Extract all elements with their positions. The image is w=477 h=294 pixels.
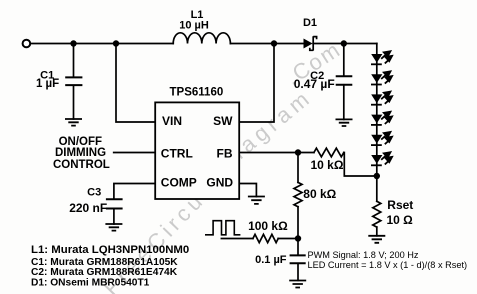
wire SW branch bbox=[239, 44, 274, 123]
resistor R2 80k zigzag bbox=[294, 182, 302, 206]
resistor R1 10k zigzag bbox=[314, 148, 344, 157]
svg-text:SW: SW bbox=[213, 114, 233, 128]
wire CTRL bbox=[114, 152, 156, 154]
LED D6 bbox=[371, 132, 393, 146]
wire Rset to ground bbox=[376, 227, 378, 236]
wire bottom node to C4 bbox=[297, 239, 299, 256]
ground C1 bbox=[65, 119, 82, 126]
svg-text:0.47 µF: 0.47 µF bbox=[294, 77, 335, 91]
LED D5 bbox=[371, 111, 393, 125]
svg-text:DIMMING: DIMMING bbox=[55, 147, 106, 159]
wire FB to resistor divider bbox=[239, 152, 314, 154]
inductor L1 bbox=[173, 33, 230, 44]
wire 80k to bottom node bbox=[297, 207, 299, 239]
node junction C2 bbox=[341, 40, 347, 46]
wire C1 branch bbox=[73, 44, 75, 77]
svg-text:10 Ω: 10 Ω bbox=[386, 213, 413, 227]
ground Rset bbox=[368, 236, 385, 243]
svg-text:1 µF: 1 µF bbox=[36, 78, 59, 90]
ground GND pin bbox=[248, 197, 265, 204]
svg-text:220 nF: 220 nF bbox=[69, 201, 107, 215]
ground C3 bbox=[105, 224, 122, 231]
LED D3 bbox=[371, 71, 393, 85]
svg-text:0.1 µF: 0.1 µF bbox=[255, 254, 287, 266]
svg-text:PWM Signal: 1.8 V; 200 Hz: PWM Signal: 1.8 V; 200 Hz bbox=[308, 250, 419, 260]
node junction PWM/RC bbox=[295, 235, 301, 241]
node junction SW/D1 bbox=[271, 40, 277, 46]
op-amp/IC U1 TPS61160 box bbox=[155, 102, 239, 199]
node junction C1 bbox=[70, 40, 76, 46]
svg-text:GND: GND bbox=[206, 176, 233, 190]
PWM square wave symbol bbox=[206, 221, 240, 235]
LED D2 bbox=[371, 51, 393, 65]
diode D1 schottky bbox=[304, 36, 317, 50]
node junction VIN bbox=[113, 40, 119, 46]
node junction LED/Rset bbox=[374, 173, 380, 179]
capacitor C1 plates bbox=[65, 77, 82, 85]
svg-text:CONTROL: CONTROL bbox=[53, 159, 110, 171]
wire LED column bbox=[376, 44, 378, 202]
wire 100k to bottom node bbox=[278, 238, 298, 240]
svg-text:Rset: Rset bbox=[387, 198, 413, 212]
wire C2 branch bbox=[343, 44, 345, 76]
svg-text:COMP: COMP bbox=[161, 176, 197, 190]
node junction FB bbox=[295, 149, 301, 155]
svg-text:C3: C3 bbox=[87, 187, 101, 199]
capacitor C3 plates bbox=[106, 199, 123, 208]
watermark FreeCircuitDiagram.Com bbox=[99, 36, 346, 294]
capacitor C4 plates bbox=[290, 255, 306, 263]
wire top rail input to L1 bbox=[30, 43, 173, 45]
resistor Rset zigzag bbox=[373, 201, 381, 227]
wire GND pin bbox=[239, 184, 256, 197]
svg-text:80 kΩ: 80 kΩ bbox=[303, 187, 336, 201]
wire L1 to D1 bbox=[230, 43, 303, 45]
input terminal circle bbox=[23, 40, 31, 48]
wire D1 to LED string bbox=[313, 43, 377, 45]
svg-text:10 kΩ: 10 kΩ bbox=[311, 158, 344, 172]
resistor R3 100k zigzag bbox=[253, 234, 278, 242]
wire 10k to LED bottom node bbox=[344, 153, 377, 177]
svg-text:FB: FB bbox=[217, 146, 233, 160]
svg-text:LED Current = 1.8 V x (1 - d)/: LED Current = 1.8 V x (1 - d)/(8 x Rset) bbox=[308, 260, 468, 270]
ground C2 bbox=[336, 119, 353, 126]
svg-text:L1: Murata LQH3NPN100NM0: L1: Murata LQH3NPN100NM0 bbox=[31, 244, 189, 256]
svg-text:10 µH: 10 µH bbox=[179, 20, 209, 32]
svg-text:C1: Murata GRM188R61A105K: C1: Murata GRM188R61A105K bbox=[31, 257, 178, 268]
wire PWM input to 100k bbox=[221, 238, 253, 240]
svg-text:100 kΩ: 100 kΩ bbox=[248, 219, 288, 233]
capacitor C2 plates bbox=[336, 76, 353, 85]
svg-text:TPS61160: TPS61160 bbox=[170, 86, 224, 98]
svg-text:VIN: VIN bbox=[162, 114, 182, 128]
svg-text:D1: D1 bbox=[303, 17, 317, 29]
ground C4 bbox=[289, 281, 306, 288]
svg-text:CTRL: CTRL bbox=[161, 146, 193, 160]
svg-text:ON/OFF: ON/OFF bbox=[59, 136, 102, 148]
wire COMP to C3 bbox=[114, 184, 155, 199]
wire VIN branch bbox=[116, 44, 155, 123]
wire FB node down to 80k bbox=[297, 153, 299, 183]
LED D4 bbox=[371, 91, 393, 105]
svg-text:D1: ONsemi MBR0540T1: D1: ONsemi MBR0540T1 bbox=[31, 277, 150, 288]
LED D7 bbox=[371, 152, 393, 166]
